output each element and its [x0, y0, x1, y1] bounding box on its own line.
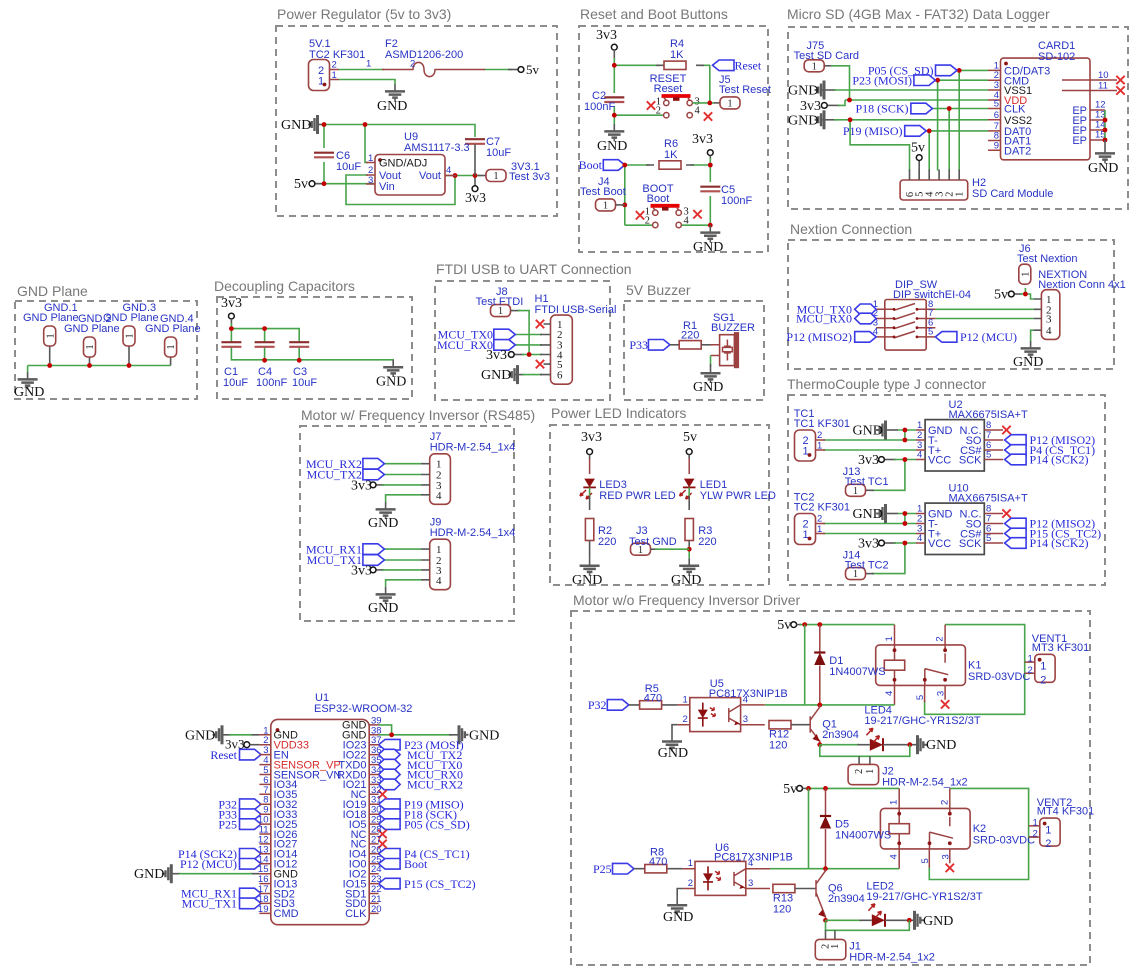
wire MCU_TX1 to pin2 [384, 559, 421, 561]
svg-text:3v3: 3v3 [351, 563, 372, 578]
svg-text:3v3: 3v3 [800, 99, 821, 114]
svg-text:5: 5 [986, 450, 991, 461]
svg-text:2: 2 [1045, 838, 1051, 850]
svg-text:19-217/GHC-YR1S2/3T: 19-217/GHC-YR1S2/3T [866, 891, 982, 903]
svg-text:5v: 5v [911, 141, 925, 156]
svg-text:10uF: 10uF [223, 377, 248, 389]
svg-text:1: 1 [889, 800, 900, 805]
svg-text:P12 (MISO2): P12 (MISO2) [786, 330, 852, 344]
wire 5v to H2 pin5 [918, 160, 920, 181]
wire 3v3 to VCC [884, 542, 896, 544]
net flag MCU_RX0 [855, 313, 877, 324]
svg-text:4: 4 [436, 490, 442, 502]
wire pin4 to GND [386, 580, 421, 587]
test point GND.2 [84, 337, 97, 357]
svg-text:P12 (MCU): P12 (MCU) [180, 857, 237, 871]
svg-text:GND: GND [788, 113, 818, 128]
svg-text:GND: GND [376, 375, 406, 390]
wire LED to GND [883, 744, 918, 746]
svg-text:2: 2 [1040, 674, 1046, 686]
wire LED to GND [885, 919, 915, 921]
svg-text:5: 5 [915, 695, 926, 700]
wire emitter to LED [823, 918, 828, 923]
wire button pin3 to J5 [693, 65, 715, 103]
net flag MCU_RX1 [240, 888, 262, 899]
svg-text:Boot: Boot [404, 857, 428, 871]
wire pin15 GND [171, 873, 259, 875]
svg-text:Test SD Card: Test SD Card [794, 50, 859, 62]
net flag P4 (CS_TC1) [1005, 445, 1027, 456]
svg-text:P14 (SCK2): P14 (SCK2) [1030, 536, 1089, 550]
svg-text:TC2 KF301: TC2 KF301 [794, 502, 850, 514]
net flag MCU_TX2 [363, 469, 385, 480]
svg-text:4: 4 [889, 854, 900, 859]
wire GND1 to VSS1 [822, 89, 836, 91]
test point GND.3 [123, 326, 136, 346]
net flag Reset [713, 60, 735, 71]
svg-text:100nF: 100nF [584, 101, 615, 113]
svg-text:1: 1 [683, 694, 688, 705]
wire TC2 pin1 to GND [339, 80, 395, 85]
svg-text:11: 11 [1098, 81, 1108, 92]
connector TC2 KF301 [309, 38, 366, 91]
svg-text:MCU_RX0: MCU_RX0 [796, 312, 852, 326]
svg-text:GND: GND [1013, 355, 1043, 370]
svg-text:TC1 KF301: TC1 KF301 [794, 418, 850, 430]
net flag P23 (MOSI) [914, 75, 936, 86]
wire MCU_TX0 to pin2 [515, 334, 542, 336]
section border [217, 297, 412, 399]
wire P18 to CLK and down to H2 pin2 [932, 109, 988, 171]
net flag P32 [240, 799, 262, 810]
wire loop to header [826, 920, 910, 930]
svg-text:5: 5 [994, 99, 999, 110]
svg-text:DIP switchEI-04: DIP switchEI-04 [893, 289, 971, 301]
svg-text:P12 (MCU): P12 (MCU) [960, 330, 1017, 344]
wire relay pin2 to VENT loop [929, 788, 1028, 879]
svg-text:Test Boot: Test Boot [580, 186, 626, 198]
wire 3v3 to pin3 [376, 484, 384, 486]
wire loop to header [820, 745, 910, 757]
svg-text:Power LED Indicators: Power LED Indicators [551, 405, 686, 421]
wire 3v3 stub [474, 176, 476, 186]
relay pin stubs [899, 788, 950, 868]
net flag P15 (CS_TC2) [379, 878, 401, 889]
net flag MCU_TX2 [379, 749, 401, 760]
svg-text:2n3904: 2n3904 [822, 729, 859, 741]
svg-text:5v: 5v [526, 62, 540, 77]
resistor R5 [629, 704, 678, 706]
wire gnd rail [28, 366, 171, 373]
svg-text:P15 (CS_TC2): P15 (CS_TC2) [404, 877, 476, 891]
wire GND to U10 pin1 [886, 513, 899, 515]
thermo channel 2 [794, 483, 1101, 581]
pushbutton RESET [662, 96, 693, 118]
svg-text:2: 2 [645, 215, 650, 226]
net flag Boot [603, 160, 625, 171]
wire DIP pin8 to NEXTION pin2 [935, 308, 1033, 310]
svg-text:VCC: VCC [928, 455, 951, 467]
wire LED1 to R3 [688, 488, 690, 498]
net flag MCU_TX1 [363, 555, 385, 566]
pins 10,11 no-connect [1062, 80, 1117, 91]
svg-text:Test Reset: Test Reset [719, 84, 771, 96]
svg-text:DAT2: DAT2 [1004, 146, 1031, 158]
pushbutton BOOT [651, 206, 682, 228]
wire buzzer pin2 to GND [710, 356, 712, 366]
section border [435, 281, 610, 400]
wire R3 to GND with J3 tap [688, 541, 690, 551]
GND flag [877, 421, 885, 440]
wire fuse to 5v label [484, 69, 512, 71]
power port 5v (left) [309, 181, 315, 187]
svg-text:P05 (CS_SD): P05 (CS_SD) [404, 817, 470, 831]
wire 3v3 rail to R4 and Reset [614, 58, 710, 65]
optocoupler U6 PC817X3NIP1B [683, 842, 793, 896]
svg-text:GND: GND [671, 573, 701, 588]
svg-text:SCK: SCK [959, 455, 982, 467]
junction dots [847, 98, 852, 103]
svg-text:3v3: 3v3 [581, 430, 602, 445]
svg-text:GND: GND [134, 867, 164, 882]
wire C2 branch [614, 65, 663, 124]
resistor R1 [679, 341, 701, 349]
net flag P23 (MOSI) [379, 739, 401, 750]
svg-text:1: 1 [803, 446, 809, 458]
svg-text:1N4007WS: 1N4007WS [835, 830, 891, 842]
test point J3 [631, 543, 651, 556]
svg-text:ASMD1206-200: ASMD1206-200 [385, 49, 463, 61]
net flag P33 [648, 340, 670, 351]
wire U9 pin1 up [365, 125, 368, 163]
wire MCU_RX2 to pin1 [384, 463, 421, 465]
header H1 FTDI USB-Serial [535, 293, 617, 384]
svg-text:5v: 5v [994, 288, 1008, 303]
net flag P18 (SCK) [379, 809, 401, 820]
svg-text:1: 1 [817, 524, 822, 535]
wire TC1 pin2 to U2 T- [823, 439, 916, 441]
svg-text:Nextion Conn 4x1: Nextion Conn 4x1 [1038, 279, 1125, 291]
svg-text:2: 2 [935, 636, 946, 641]
section border [788, 27, 1128, 209]
svg-text:5: 5 [928, 327, 933, 338]
wire TC1 pin1 to U2 T+ [823, 449, 916, 451]
test point J6 vertical [1019, 264, 1032, 284]
svg-text:HDR-M-2.54_1x2: HDR-M-2.54_1x2 [849, 951, 935, 963]
net flag MCU_TX0 [379, 759, 401, 770]
svg-text:GND Plane: GND Plane [17, 283, 88, 299]
header H2 SD Card Module [900, 170, 1053, 201]
svg-text:SD Card Module: SD Card Module [972, 188, 1053, 200]
svg-text:FTDI USB to UART Connection: FTDI USB to UART Connection [436, 261, 632, 277]
svg-text:220: 220 [698, 536, 716, 548]
wire 3v3 to LED3 [589, 455, 591, 459]
section border [788, 240, 1114, 369]
wire GND rail [318, 124, 326, 126]
svg-text:GND: GND [469, 728, 499, 743]
wire opto pin2 to GND [677, 889, 682, 898]
svg-text:1: 1 [1033, 817, 1038, 828]
svg-text:19: 19 [258, 904, 269, 915]
LED LED1 [683, 479, 696, 488]
svg-text:GND: GND [185, 728, 215, 743]
section border [571, 611, 1090, 965]
capacitor C1 [221, 342, 241, 347]
diode D1 1N4007WS [819, 625, 821, 705]
svg-text:GND: GND [658, 746, 688, 761]
resistor R2 vertical [585, 519, 593, 541]
svg-text:P32: P32 [588, 698, 607, 712]
svg-text:Boot: Boot [579, 158, 603, 172]
net flag MCU_RX2 [379, 779, 401, 790]
net flag P12 (MCU) [240, 859, 262, 870]
svg-text:FTDI USB-Serial: FTDI USB-Serial [535, 304, 617, 316]
wire GND to pin6 [515, 374, 524, 376]
svg-text:EP: EP [1072, 135, 1087, 147]
IC U2 MAX6675ISA+T [916, 399, 1028, 471]
wire 5v rail [803, 787, 808, 789]
transistor Q6 2n3904 [816, 869, 826, 921]
svg-text:3v3: 3v3 [351, 478, 372, 493]
svg-text:4: 4 [884, 691, 895, 696]
LED LED3 [583, 479, 596, 488]
test point J75 [804, 60, 824, 73]
wire 5v to J6 and NEXTION pin1 [1014, 293, 1022, 295]
svg-text:MCU_RX2: MCU_RX2 [407, 778, 463, 792]
net flag MCU_TX1 [240, 898, 262, 909]
svg-text:MT3 KF301: MT3 KF301 [1032, 642, 1089, 654]
svg-text:Reset: Reset [735, 59, 762, 73]
wire MCU_RX1 to pin1 [384, 548, 421, 550]
svg-text:CLK: CLK [1004, 104, 1026, 116]
svg-text:ThermoCouple type J connector: ThermoCouple type J connector [787, 376, 987, 392]
wire LED3 to R2 [589, 488, 591, 498]
net flag P12 (MISO2) [1005, 435, 1027, 446]
svg-text:5v: 5v [777, 618, 791, 633]
svg-text:GND: GND [853, 424, 883, 439]
wire emitter to LED [817, 742, 822, 747]
test point J4 [596, 199, 616, 212]
svg-text:220: 220 [598, 536, 616, 548]
net flag P19 (MISO) [905, 126, 927, 137]
ground [18, 372, 38, 388]
relay K1 SRD-03VDC [876, 636, 1031, 700]
svg-text:470: 470 [644, 692, 662, 704]
svg-text:3v3: 3v3 [221, 296, 242, 311]
svg-text:3: 3 [743, 714, 748, 725]
svg-text:P33: P33 [629, 338, 648, 352]
section border [276, 26, 557, 216]
svg-text:P14 (SCK2): P14 (SCK2) [1030, 453, 1089, 467]
GND net flag left [309, 115, 317, 134]
wire MCU_TX2 to pin2 [384, 474, 421, 476]
svg-text:5v: 5v [783, 782, 797, 797]
wire boot rail [625, 165, 711, 225]
wire TC2 pin1 to U10 T+ [823, 533, 916, 535]
svg-text:ESP32-WROOM-32: ESP32-WROOM-32 [314, 703, 412, 715]
svg-text:1: 1 [688, 858, 693, 869]
ground symbol [385, 84, 405, 100]
svg-text:3v3: 3v3 [596, 28, 617, 43]
svg-text:5: 5 [920, 858, 931, 863]
connector NEXTION Nextion Conn 4x1 [1034, 269, 1126, 339]
no-connect X pin32 [378, 790, 386, 798]
wire collector row [765, 625, 895, 705]
svg-text:K2: K2 [973, 823, 986, 835]
capacitor C5 [700, 187, 720, 192]
svg-text:CLK: CLK [345, 908, 367, 920]
wire NEXTION pin4 to GND [1031, 330, 1034, 341]
section border [550, 425, 769, 585]
net flag P14 (SCK2) [1005, 538, 1027, 549]
svg-text:HDR-M-2.54_1x4: HDR-M-2.54_1x4 [430, 442, 516, 454]
wire top rail [231, 323, 299, 342]
net flag P25 [240, 819, 262, 830]
resistor R3 vertical [685, 519, 693, 541]
net flag P05 (CS_SD) [936, 65, 958, 76]
GND flag right [459, 725, 467, 744]
optocoupler U5 PC817X3NIP1B [677, 678, 787, 732]
regulator U9 AMS1117-3.3 [366, 131, 470, 195]
header J2 HDR-M-2.54_1x2 [848, 764, 968, 788]
svg-text:GND: GND [481, 368, 511, 383]
net flag MCU_RX0 [494, 340, 516, 351]
svg-text:5v: 5v [683, 430, 697, 445]
header J9 block [306, 517, 515, 617]
svg-text:Motor w/o Frequency Inversor D: Motor w/o Frequency Inversor Driver [573, 592, 801, 608]
svg-text:220: 220 [681, 330, 699, 342]
svg-text:10: 10 [1098, 70, 1109, 81]
wire output pin4 to test [445, 175, 482, 177]
wire GND2 to VSS2 [822, 119, 836, 121]
svg-text:GND: GND [377, 99, 407, 114]
net flag P33 [240, 809, 262, 820]
GND flag 2 [816, 110, 824, 129]
svg-text:Motor w/ Frequency Inversor (R: Motor w/ Frequency Inversor (RS485) [301, 407, 535, 423]
connector TC2 KF301 [794, 492, 850, 545]
svg-text:2: 2 [656, 106, 661, 117]
capacitor C3 [289, 342, 309, 347]
no-connect X pin8 [1002, 509, 1010, 517]
svg-text:GND Plane: GND Plane [145, 323, 201, 335]
wire J14 stub [866, 573, 874, 575]
wire P19 to DAT0 and down to H2 pin4 [926, 131, 988, 171]
svg-text:1: 1 [366, 59, 371, 70]
test point J14 [846, 568, 866, 581]
test point GND.1 [44, 326, 57, 346]
svg-text:1: 1 [803, 529, 809, 541]
wire MCU_RX0 to pin3 [515, 344, 542, 346]
svg-text:3v3: 3v3 [486, 348, 507, 363]
svg-text:Test TC2: Test TC2 [845, 560, 889, 572]
svg-text:5: 5 [986, 533, 991, 544]
svg-text:P25: P25 [593, 862, 612, 876]
svg-text:Test Nextion: Test Nextion [1017, 253, 1078, 265]
svg-text:1: 1 [884, 636, 895, 641]
svg-text:2: 2 [1028, 665, 1033, 676]
svg-text:HDR-M-2.54_1x2: HDR-M-2.54_1x2 [882, 776, 968, 788]
transistor Q1 2n3904 [810, 705, 820, 745]
svg-text:Nextion Connection: Nextion Connection [790, 221, 912, 237]
wire 5v to LED1 [688, 455, 690, 459]
wire R1 to buzzer [701, 344, 711, 346]
svg-text:Vout: Vout [419, 170, 441, 182]
LED LED2 [872, 914, 885, 927]
wire J75 to VDD junction [825, 65, 833, 67]
ground [376, 587, 396, 603]
wire R2 to GND [589, 541, 591, 559]
svg-text:120: 120 [773, 904, 791, 916]
ground [383, 360, 403, 376]
resistor R12 [769, 721, 791, 729]
net flag P18 (SCK) [911, 103, 933, 114]
svg-text:Reset: Reset [654, 83, 683, 95]
svg-text:SRD-03VDC: SRD-03VDC [973, 834, 1035, 846]
ground [376, 502, 396, 518]
section border [300, 426, 514, 621]
svg-text:Vin: Vin [379, 181, 395, 193]
svg-text:Test TC1: Test TC1 [845, 476, 889, 488]
svg-text:Decoupling Capacitors: Decoupling Capacitors [214, 278, 355, 294]
no-connect X pin27 [378, 840, 386, 848]
svg-text:3: 3 [368, 175, 373, 186]
svg-text:CMD: CMD [274, 908, 299, 920]
svg-text:VCC: VCC [928, 538, 951, 550]
svg-text:4: 4 [446, 165, 451, 176]
svg-text:4: 4 [917, 533, 922, 544]
test point J13 [846, 484, 866, 497]
svg-text:GND: GND [663, 910, 693, 925]
svg-text:19-217/GHC-YR1S2/3T: 19-217/GHC-YR1S2/3T [864, 715, 980, 727]
svg-text:Micro SD (4GB Max - FAT32) Dat: Micro SD (4GB Max - FAT32) Data Logger [787, 6, 1050, 22]
svg-text:4: 4 [684, 215, 690, 226]
ground [604, 124, 624, 140]
svg-text:1K: 1K [670, 49, 684, 61]
wire TC2 pin2 to fuse [339, 69, 384, 71]
svg-text:120: 120 [769, 740, 787, 752]
svg-text:Test 3v3: Test 3v3 [509, 171, 550, 183]
svg-text:2: 2 [1033, 829, 1038, 840]
no-connect X pin8 [1002, 426, 1010, 434]
svg-text:1: 1 [830, 944, 841, 949]
connector VENT2 KF301 [1029, 797, 1095, 850]
GND flag [877, 504, 885, 523]
net flag P12 (MCU) [935, 332, 957, 343]
svg-text:GND: GND [853, 507, 883, 522]
svg-text:GND: GND [368, 516, 398, 531]
GND flag [509, 365, 517, 384]
svg-text:GND: GND [281, 118, 311, 133]
svg-text:MAX6675ISA+T: MAX6675ISA+T [949, 493, 1028, 505]
net flag P25 [613, 863, 635, 874]
power port 3v3 [472, 186, 478, 192]
net flag MCU_RX2 [363, 458, 385, 469]
IC U1 ESP32-WROOM-32 [258, 692, 413, 925]
net flag Boot [379, 859, 401, 870]
svg-text:9: 9 [994, 140, 999, 151]
svg-text:2n3904: 2n3904 [828, 893, 865, 905]
diode D5 1N4007WS [825, 788, 827, 868]
power port 5v [518, 67, 524, 73]
svg-text:3: 3 [1046, 314, 1052, 326]
net flag P32 [607, 700, 629, 711]
svg-text:BUZZER: BUZZER [711, 322, 755, 334]
net flag P14 (SCK2) [240, 849, 262, 860]
wire 3v3 to VCC [884, 459, 896, 461]
resistor R4 [664, 61, 686, 69]
wire TC2 pin2 to U10 T- [823, 523, 916, 525]
junction dots [322, 122, 327, 127]
